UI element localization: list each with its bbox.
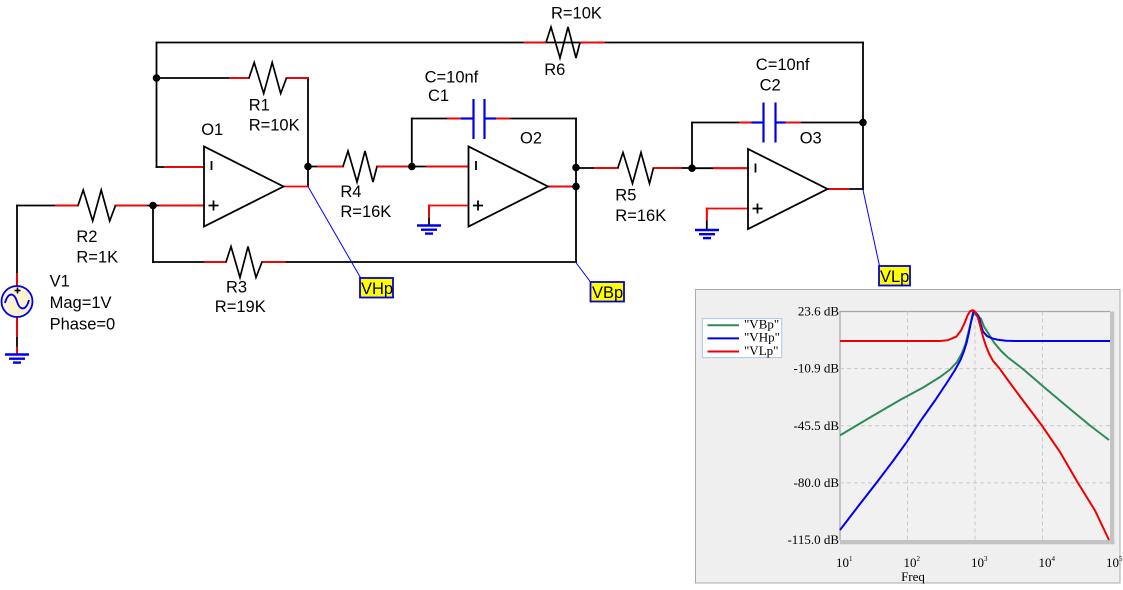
pin stub R1 right (287, 77, 309, 79)
pin stub R2 right (116, 205, 147, 207)
svg-text:R=19K: R=19K (215, 298, 266, 316)
net label wire VHp (308, 187, 361, 279)
svg-text:R1: R1 (249, 97, 270, 115)
svg-text:R=1K: R=1K (76, 248, 118, 266)
wire C1 row (412, 118, 461, 120)
wire vertical x153 down to R3 row (152, 206, 154, 263)
pin stub O2 minus (427, 166, 469, 168)
node R5 tap (572, 164, 580, 172)
op-amp O1 (204, 147, 284, 227)
svg-text:23.6 dB: 23.6 dB (798, 304, 840, 319)
pin stub R2 left (56, 205, 78, 207)
svg-text:C=10nf: C=10nf (425, 69, 479, 87)
net label wire VLp (863, 190, 880, 266)
legend swatch VLp (708, 351, 740, 353)
legend box (702, 319, 781, 358)
gridline horizontal -80.0 (840, 482, 1110, 484)
pin stub R5 left (595, 167, 618, 169)
pin stub O3 plus (707, 208, 748, 210)
pin stub R1 left (230, 77, 249, 79)
CHART PANEL (696, 290, 1123, 585)
wire O3 output (828, 188, 864, 190)
svg-text:C2: C2 (760, 76, 781, 94)
node O2 output (572, 183, 580, 191)
legend swatch VBp (708, 324, 740, 326)
capacitor C1 (461, 99, 496, 139)
svg-text:-10.9 dB: -10.9 dB (794, 361, 840, 376)
wire R4 row (308, 166, 343, 168)
node C2 top (859, 119, 867, 127)
pin stub R4 left (318, 166, 343, 168)
ground G2 (under O2 plus) (417, 226, 441, 234)
pin stub V1 bottom (16, 317, 18, 336)
svg-text:R2: R2 (76, 228, 97, 246)
op-amp O3 (748, 149, 828, 229)
svg-text:-80.0 dB: -80.0 dB (794, 475, 840, 490)
svg-text:Phase=0: Phase=0 (50, 316, 116, 334)
wire O1 minus lead (157, 166, 205, 168)
wire right vertical x863 (862, 43, 864, 190)
node O1 plus input (149, 202, 157, 210)
svg-text:Freq: Freq (901, 569, 925, 584)
svg-text:O3: O3 (800, 130, 822, 148)
svg-text:-45.5 dB: -45.5 dB (794, 418, 840, 433)
pin stub R3 left (205, 261, 226, 263)
chart panel background (696, 290, 1121, 584)
wire R2 row to O1 plus (17, 205, 78, 207)
svg-text:"VLp": "VLp" (744, 343, 778, 358)
plot thin top/left border (840, 312, 1110, 541)
pin stub R4 right (377, 166, 407, 168)
gridline vertical 2 (974, 312, 976, 541)
curve VBp green (840, 314, 1109, 441)
junction dots (149, 74, 867, 209)
ground G1 (under V1) (5, 355, 29, 363)
net label VLp (879, 266, 910, 286)
legend swatch VHp (708, 337, 740, 339)
pin stub O2 ground drop (428, 206, 430, 218)
svg-text:Mag=1V: Mag=1V (50, 294, 112, 312)
pin stub R6 right (580, 42, 604, 44)
gridline horizontal -45.5 (840, 425, 1110, 427)
svg-text:R=16K: R=16K (615, 207, 666, 225)
pin stub O3 ground drop (706, 209, 708, 221)
pin stub ground G1 (16, 348, 18, 355)
RED PIN STUBS (17, 43, 849, 355)
SCHEMATIC WIRES (17, 43, 863, 355)
node R1 tap (153, 74, 161, 82)
node O2 minus input (408, 163, 416, 171)
wire R1 row (157, 77, 250, 79)
voltage source V1 (2, 286, 33, 317)
svg-text:R=16K: R=16K (340, 203, 391, 221)
wire vertical x692 C2 to R5 row (691, 123, 693, 170)
capacitor C2 (752, 103, 786, 143)
wire O3 plus ground drop (706, 209, 708, 230)
svg-text:V1: V1 (50, 272, 70, 290)
wire O2 plus ground drop (428, 206, 430, 225)
svg-text:VBp: VBp (592, 284, 623, 302)
wire top feedback (157, 42, 864, 44)
pin stub O1 minus (165, 166, 204, 168)
resistor R6 (546, 27, 580, 58)
pin stub O3 minus (714, 167, 748, 169)
pin stub C1 right (496, 118, 509, 120)
svg-text:R3: R3 (226, 278, 247, 296)
pin stub O1 plus (160, 205, 204, 207)
svg-text:R5: R5 (615, 187, 636, 205)
curve VLp red (840, 310, 1109, 540)
resistor R5 (618, 153, 654, 184)
node R4 tap (304, 163, 312, 171)
curve VHp blue (840, 312, 1110, 531)
wire O2 output to vertical (548, 186, 576, 188)
gridline vertical 3 (1042, 312, 1044, 541)
op-amp O2 (469, 147, 549, 227)
pin stub V1 top (16, 274, 18, 286)
wire C2 row (692, 122, 752, 124)
resistor R4 (343, 151, 377, 182)
svg-text:C=10nf: C=10nf (756, 56, 810, 74)
gridline vertical 1 (907, 312, 909, 541)
ground G3 (under O3 plus) (695, 230, 719, 238)
pin stub C1 left (448, 118, 461, 120)
gridline horizontal -10.9 (840, 368, 1110, 370)
resistor R2 (78, 190, 116, 221)
plot thick right border (1110, 312, 1114, 545)
svg-text:C1: C1 (428, 87, 449, 105)
pin stub C2 right (786, 122, 801, 124)
pin stub O1 output (284, 186, 309, 188)
wire vertical x308 R1 to O1 output (307, 78, 309, 187)
svg-text:VHp: VHp (361, 280, 393, 298)
svg-text:R=10K: R=10K (551, 5, 602, 23)
svg-text:R=10K: R=10K (249, 117, 300, 135)
wire vertical x576 C1 to R3 row (575, 119, 577, 263)
wire R3 row (153, 261, 226, 263)
net label VBp (591, 282, 625, 302)
wire vertical x411.8 (411, 119, 413, 168)
pin stub O3 output (828, 188, 850, 190)
wire V1 column (16, 206, 18, 287)
wire left vertical from top to O1 minus (156, 43, 158, 168)
plot thick bottom border (840, 540, 1115, 544)
net label VHp (360, 278, 393, 298)
svg-text:R4: R4 (340, 183, 361, 201)
pin stub O2 output (548, 186, 573, 188)
pin stub R3 right (262, 261, 285, 263)
svg-text:R6: R6 (544, 61, 565, 79)
svg-text:O1: O1 (201, 121, 223, 139)
node O3 minus input (688, 164, 696, 172)
pin stub R6 left (525, 42, 547, 44)
wire R5 row (576, 167, 618, 169)
pin stub R5 right (653, 167, 681, 169)
plot area (840, 312, 1110, 541)
pin stub O2 plus (429, 205, 469, 207)
svg-text:O2: O2 (520, 130, 542, 148)
pin stub C2 left (740, 122, 752, 124)
net label wire VBp (576, 262, 591, 282)
resistor R3 (226, 247, 262, 278)
svg-text:-115.0 dB: -115.0 dB (787, 532, 839, 547)
resistor R1 (249, 63, 287, 94)
svg-text:VLp: VLp (880, 268, 909, 286)
